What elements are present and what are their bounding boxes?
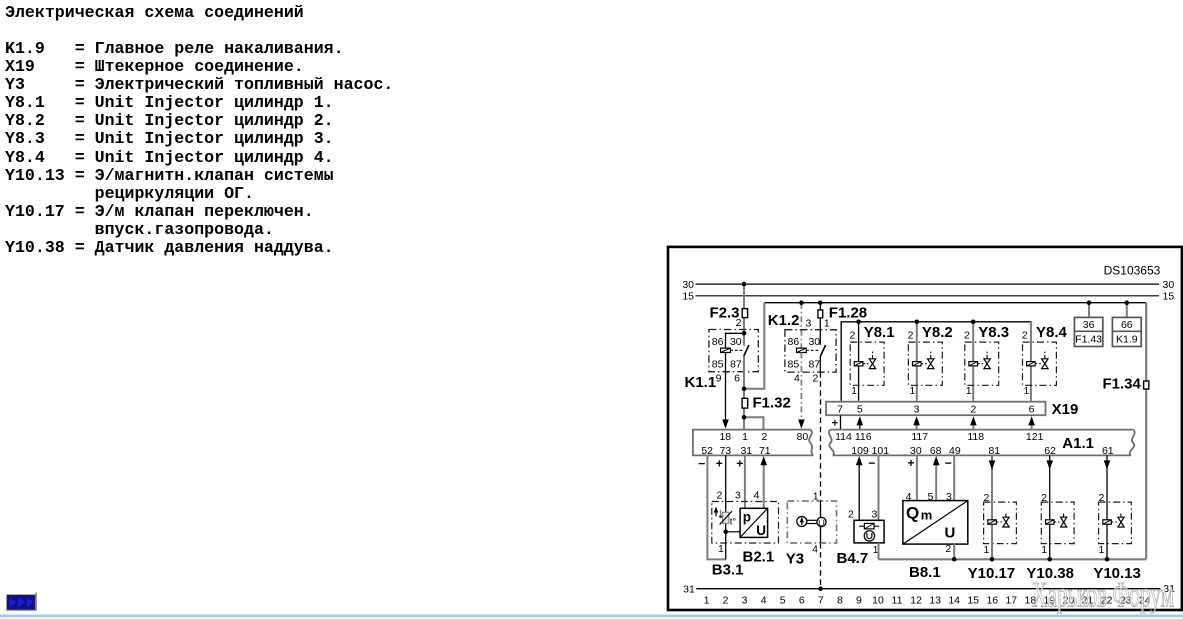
svg-text:1: 1 — [984, 544, 990, 556]
junction rail Y8.2 — [915, 320, 920, 325]
navigation button bottom-left — [5, 592, 37, 611]
svg-text:2: 2 — [1041, 492, 1047, 504]
junction Y3 to ground 31 — [818, 586, 823, 591]
svg-text:1: 1 — [851, 385, 857, 397]
svg-text:9: 9 — [856, 594, 862, 606]
wire Y8.3 to X19 pin2 — [972, 322, 974, 401]
svg-text:2: 2 — [761, 431, 767, 443]
svg-text:1: 1 — [704, 594, 710, 606]
svg-text:3: 3 — [871, 509, 877, 521]
svg-text:2: 2 — [723, 594, 729, 606]
svg-text:+: + — [716, 456, 723, 470]
svg-text:A1.1: A1.1 — [1062, 435, 1094, 452]
wire K1.1 pin6 through F1.32 — [743, 356, 745, 430]
node 31 ground line — [683, 583, 1175, 596]
relay K1.1 — [685, 330, 759, 392]
svg-text:30: 30 — [730, 336, 742, 348]
wire K1.2 contact to switch bottom — [819, 356, 821, 372]
svg-text:80: 80 — [797, 431, 809, 443]
schematic frame border — [668, 247, 1182, 610]
svg-text:Y3: Y3 — [786, 550, 804, 567]
svg-text:15: 15 — [967, 594, 979, 606]
svg-text:F1.32: F1.32 — [753, 395, 791, 412]
svg-text:−: − — [698, 456, 705, 470]
svg-text:1: 1 — [1041, 544, 1047, 556]
svg-text:1: 1 — [742, 431, 748, 443]
polarity signs under A1.1 left segment — [698, 456, 743, 470]
svg-text:1: 1 — [909, 385, 915, 397]
wire branch bus at y302 — [764, 302, 1146, 304]
svg-text:F1.34: F1.34 — [1102, 375, 1141, 392]
pump Y3 electric fuel pump — [786, 490, 837, 567]
junction Y10.13 return — [1105, 557, 1110, 562]
svg-text:2: 2 — [964, 330, 970, 342]
svg-text:62: 62 — [1044, 445, 1056, 457]
svg-text:8: 8 — [837, 594, 843, 606]
svg-text:1: 1 — [718, 543, 724, 555]
wire A1.1 pin31 to B2.1 pin3 — [744, 455, 746, 508]
svg-text:K1.1: K1.1 — [685, 374, 717, 391]
valve Y10.38 — [1026, 492, 1074, 582]
wire arrow A1.1 pin61 to Y10.13 — [1104, 455, 1111, 502]
svg-text:Y8.2: Y8.2 — [922, 324, 953, 341]
return bus line y560 — [879, 558, 1147, 560]
svg-text:30: 30 — [808, 336, 820, 348]
svg-text:X19: X19 — [1052, 401, 1079, 418]
svg-text:1: 1 — [813, 490, 819, 502]
svg-text:15: 15 — [1163, 291, 1175, 303]
svg-text:2: 2 — [908, 330, 914, 342]
svg-text:114: 114 — [835, 431, 852, 443]
connector X19 — [826, 401, 1078, 418]
svg-text:86: 86 — [712, 336, 724, 348]
svg-text:B4.7: B4.7 — [837, 550, 869, 567]
svg-text:6: 6 — [799, 594, 805, 606]
svg-text:2: 2 — [736, 317, 742, 329]
node 30 bus line — [682, 279, 1174, 291]
grid coordinate numbers — [704, 594, 1151, 606]
svg-text:2: 2 — [849, 330, 855, 342]
svg-text:9: 9 — [716, 372, 722, 384]
svg-text:B8.1: B8.1 — [909, 564, 941, 581]
injector Y8.2 — [908, 324, 953, 397]
svg-text:116: 116 — [855, 431, 872, 443]
wire B4.7 pin1 to return bus — [878, 543, 880, 559]
node 15 bus line — [682, 291, 1174, 303]
svg-text:14: 14 — [948, 594, 960, 606]
junction K1.2 coil supply — [799, 300, 804, 305]
svg-text:117: 117 — [911, 431, 928, 443]
junction rail Y8.1 — [856, 320, 861, 325]
junction B8.1 return — [952, 557, 957, 562]
valve Y10.17 — [968, 492, 1017, 582]
wire K1.2 coil to A1.1 pin80 — [798, 353, 805, 429]
wire A1.1 pin101 to B4.7 pin3 — [878, 455, 880, 520]
svg-text:4: 4 — [754, 490, 760, 502]
svg-text:86: 86 — [788, 336, 800, 348]
fuse F1.32 — [742, 395, 791, 412]
svg-text:18: 18 — [719, 431, 731, 443]
svg-text:Y8.4: Y8.4 — [1036, 324, 1068, 341]
wire B8.1 pin2 to return bus — [953, 544, 955, 559]
wire arrow A1.1 pin81 to Y10.17 — [989, 455, 996, 502]
svg-text:3: 3 — [742, 594, 748, 606]
wire A1.1 pin114 to X19 pin7 — [832, 415, 841, 429]
svg-text:5: 5 — [927, 491, 933, 503]
wire K1.2 coil dash-dot — [800, 303, 802, 348]
junction Y10.17 return — [990, 557, 995, 562]
svg-text:16: 16 — [986, 594, 998, 606]
ECU A1.1 right segment — [829, 430, 1135, 457]
svg-text:52: 52 — [701, 445, 713, 457]
svg-text:6: 6 — [1029, 403, 1035, 415]
svg-text:Харьков Форум: Харьков Форум — [1032, 576, 1174, 615]
wire F1.32 to A1.1 pin2 — [744, 417, 764, 430]
svg-text:121: 121 — [1026, 431, 1044, 443]
svg-text:2: 2 — [984, 492, 990, 504]
junction pin6 / feed — [742, 387, 747, 392]
svg-text:10: 10 — [872, 594, 884, 606]
wire F1.28 to K1.2 contact 30 — [819, 318, 821, 345]
svg-text:+: + — [736, 456, 743, 470]
svg-text:Q: Q — [906, 504, 919, 523]
svg-text:12: 12 — [910, 594, 922, 606]
svg-text:4: 4 — [761, 594, 767, 606]
wire arrow B8.1 pin5 to A1.1 pin68 — [933, 456, 940, 501]
fuse F1.28 — [818, 303, 867, 322]
svg-text:2: 2 — [1099, 492, 1105, 504]
svg-text:m: m — [921, 508, 933, 523]
svg-text:2: 2 — [716, 490, 722, 502]
svg-text:2: 2 — [970, 403, 976, 415]
junction F1.28 supply — [818, 300, 823, 305]
wire Y8.1 to X19 pin5 — [858, 322, 860, 401]
switch blade K1.2 — [821, 345, 826, 356]
wire A1.1 pin30 to B8.1 pin4 — [916, 455, 918, 500]
svg-text:73: 73 — [719, 445, 731, 457]
svg-text:B2.1: B2.1 — [743, 548, 775, 565]
wire to connector 36/F1.43 — [1088, 303, 1090, 318]
svg-text:68: 68 — [930, 445, 942, 457]
fuse F2.3 — [709, 304, 747, 329]
svg-text:13: 13 — [929, 594, 941, 606]
wire B3.1 to B2.1 — [726, 531, 740, 533]
junction rail Y8.3 — [971, 320, 976, 325]
svg-text:87: 87 — [808, 358, 820, 370]
svg-text:+: + — [832, 417, 838, 429]
svg-text:15: 15 — [682, 291, 694, 303]
fuse F1.34 — [1102, 375, 1148, 392]
wire K1.2 pin2 dashed down to Y3 — [820, 372, 822, 501]
legend text block — [5, 4, 393, 257]
coil K1.1 — [721, 348, 743, 352]
wire Y8.2 to X19 pin3 — [916, 322, 918, 401]
svg-text:Y8.1: Y8.1 — [864, 324, 895, 341]
svg-text:DS103653: DS103653 — [1104, 263, 1161, 277]
sensor B3.1 temperature — [712, 490, 779, 579]
junction bus to connector 66/K1.9 — [1125, 300, 1130, 305]
wire Y8.4 to X19 pin6 — [1030, 322, 1032, 401]
wire K1.1 coil branch — [726, 333, 745, 348]
wire Y3 pin4 dashed down to node 31 — [820, 543, 822, 589]
svg-text:4: 4 — [906, 491, 912, 503]
svg-text:5: 5 — [780, 594, 786, 606]
junction K1.1 pin2 split — [742, 331, 747, 336]
svg-text:31: 31 — [683, 584, 695, 596]
svg-text:Y8.3: Y8.3 — [978, 324, 1009, 341]
svg-text:61: 61 — [1102, 445, 1114, 457]
injector supply rail — [841, 322, 1031, 401]
wire arrow A1.1 pin62 to Y10.38 — [1046, 455, 1053, 502]
svg-text:85: 85 — [712, 358, 724, 370]
svg-text:109: 109 — [851, 445, 869, 457]
svg-text:F1.28: F1.28 — [829, 304, 867, 321]
connector box 36 / F1.43 — [1074, 317, 1102, 346]
wire A1.1 pin49 to B8.1 pin3 — [953, 455, 955, 500]
wire to connector 66/K1.9 — [1126, 303, 1128, 318]
wire arrow B2.1 pin4 to A1.1 pin71 — [760, 456, 767, 508]
svg-text:−: − — [868, 456, 875, 470]
wire K1.1 pin9 to A1.1 pin18 — [722, 353, 729, 429]
svg-text:87: 87 — [730, 358, 742, 370]
air mass meter B8.1 — [903, 491, 968, 581]
junction Y10.38 return — [1047, 557, 1052, 562]
wire arrow B4.7 pin2 to A1.1 pin109 — [856, 456, 863, 520]
injector Y8.3 — [964, 324, 1009, 397]
wire A1.1 pin73 to B3.1 sensor — [725, 455, 727, 559]
svg-text:3: 3 — [946, 491, 952, 503]
svg-text:2: 2 — [848, 509, 854, 521]
switch blade K1.1 — [744, 345, 749, 356]
svg-text:K1.2: K1.2 — [768, 312, 800, 329]
svg-text:81: 81 — [988, 445, 1000, 457]
junction on bus 30 for F2.3 — [742, 282, 747, 287]
browser status blue line — [0, 614, 1183, 618]
svg-text:1: 1 — [966, 385, 972, 397]
wire arrow A1.1 pin118 to X19 pin2 — [970, 416, 977, 429]
svg-text:30: 30 — [682, 279, 694, 291]
wire arrow A1.1 pin117 to X19 pin3 — [913, 416, 920, 429]
svg-text:B3.1: B3.1 — [712, 562, 744, 579]
svg-text:K1.9: K1.9 — [1116, 333, 1138, 345]
svg-text:3: 3 — [806, 317, 812, 329]
svg-text:U: U — [945, 525, 956, 542]
svg-text:17: 17 — [1005, 594, 1017, 606]
junction below F1.32 — [742, 415, 747, 420]
svg-text:85: 85 — [788, 358, 800, 370]
wire arrow A1.1 pin116 to X19 pin5 — [857, 416, 864, 429]
svg-text:71: 71 — [759, 445, 771, 457]
valve Y10.13 — [1093, 492, 1141, 582]
svg-text:2: 2 — [945, 543, 951, 555]
svg-text:2: 2 — [1022, 330, 1028, 342]
junction bus to connector 36/F1.43 — [1087, 300, 1092, 305]
svg-text:66: 66 — [1121, 319, 1133, 331]
svg-text:1: 1 — [1023, 385, 1029, 397]
svg-text:36: 36 — [1083, 319, 1095, 331]
svg-text:1: 1 — [1099, 544, 1105, 556]
svg-text:−: − — [945, 456, 952, 470]
svg-text:6: 6 — [734, 372, 740, 384]
wire arrow A1.1 pin121 to X19 pin6 — [1028, 416, 1035, 429]
junction B3.1 output — [723, 530, 728, 535]
injector Y8.4 — [1022, 324, 1068, 397]
wire F2.3 supply from bus 30 — [743, 284, 745, 346]
coil K1.2 — [797, 348, 819, 352]
svg-text:11: 11 — [892, 594, 903, 606]
svg-text:5: 5 — [857, 403, 863, 415]
svg-text:+: + — [907, 456, 914, 470]
svg-text:p: p — [743, 510, 751, 525]
svg-text:4: 4 — [794, 372, 800, 384]
svg-text:31: 31 — [740, 445, 752, 457]
relay K1.2 — [768, 312, 836, 384]
sensor B4.7 — [837, 509, 885, 567]
svg-text:30: 30 — [1163, 279, 1175, 291]
wire right return riser through F1.34 — [1145, 303, 1147, 560]
injector Y8.1 — [849, 324, 894, 397]
sensor B2.1 pressure p/U — [735, 490, 774, 566]
svg-text:3: 3 — [914, 403, 920, 415]
svg-text:3: 3 — [735, 490, 741, 502]
svg-text:7: 7 — [837, 403, 843, 415]
svg-text:4: 4 — [812, 544, 818, 556]
svg-text:118: 118 — [967, 431, 984, 443]
svg-text:F1.43: F1.43 — [1075, 333, 1102, 345]
wire A1.1 pin52 to B3.1 ground — [707, 455, 725, 559]
svg-text:Y10.17: Y10.17 — [968, 565, 1016, 582]
svg-text:U: U — [756, 523, 766, 538]
wire link from branch bus down to K1.1 pin6 — [744, 303, 764, 389]
svg-text:2: 2 — [813, 372, 819, 384]
connector box 66 / K1.9 — [1112, 317, 1141, 346]
ECU A1.1 left segment — [693, 430, 813, 457]
svg-text:t°: t° — [730, 516, 737, 527]
svg-text:7: 7 — [818, 594, 824, 606]
